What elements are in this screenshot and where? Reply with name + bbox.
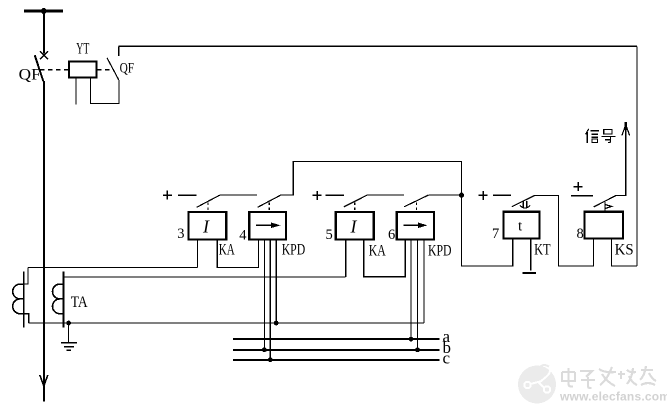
current transformer TA coil 2	[52, 271, 63, 327]
busbar	[24, 9, 63, 12]
relay box 3 (KA current relay)	[189, 212, 227, 240]
svg-text:6: 6	[388, 227, 395, 243]
label 7	[492, 226, 499, 242]
label KS	[615, 242, 634, 259]
node dot CT2-neutral	[66, 321, 71, 326]
wire CT1 top jog to wire A	[24, 268, 28, 285]
relay box 4 (KPD power direction relay)	[249, 212, 286, 240]
ground	[61, 343, 77, 351]
wire contact3 to contact4	[220, 194, 257, 196]
phase line a	[233, 338, 439, 340]
label 6	[388, 227, 395, 243]
phase line b	[233, 349, 439, 351]
wire box5 left pin	[345, 240, 347, 277]
wire contact 8 fixed	[571, 195, 593, 197]
contact QF aux blade	[107, 58, 119, 80]
watermark text www.elecfans.com	[559, 390, 667, 404]
wire box5-box6 U link	[364, 240, 405, 277]
linkage tick box4	[268, 203, 270, 212]
wire right rail	[636, 46, 638, 266]
contact KS-8 blade	[594, 195, 616, 207]
wire box4 pin to neutral line	[275, 240, 277, 323]
svg-text:KPD: KPD	[428, 243, 452, 260]
wire box6 pin to neutral line end	[423, 240, 425, 323]
contact KA-3 blade	[197, 195, 220, 207]
watermark text 电子发烧友	[562, 366, 656, 388]
svg-text:c: c	[443, 349, 451, 368]
wire contact5 to contact6	[368, 194, 405, 196]
phase line c	[233, 359, 439, 361]
node dot box4-neutral	[274, 321, 279, 326]
arrow in box 4	[256, 223, 281, 229]
node dot box6-b	[415, 347, 420, 352]
wire dash (contact 5 fixed)	[326, 194, 344, 196]
plus supply (contact 8)	[574, 182, 583, 191]
wire contact8 to signal arrow	[616, 125, 626, 195]
signal relay box 8 (KS)	[585, 212, 624, 239]
label 8	[577, 226, 584, 242]
svg-text:QF: QF	[19, 67, 41, 84]
label KPD (box4)	[282, 242, 306, 259]
svg-text:KA: KA	[369, 243, 387, 260]
wire top rail	[119, 45, 637, 47]
svg-text:TA: TA	[71, 294, 89, 311]
svg-text:5: 5	[326, 227, 333, 243]
label I in box 3	[202, 217, 210, 237]
wire dash (contact 3 fixed)	[178, 194, 197, 196]
label b	[443, 338, 452, 357]
wire neutral line	[29, 322, 424, 324]
plus supply (contact 7)	[479, 191, 488, 200]
minus terminal	[523, 272, 537, 274]
label TA	[71, 294, 89, 311]
wire box7 right pin	[530, 239, 532, 271]
wire box3 left pin	[196, 240, 198, 268]
current transformer TA coil 1	[13, 271, 24, 327]
linkage tick box6	[415, 203, 417, 212]
dashed linkage YT to QF aux contact	[97, 69, 113, 71]
svg-text:QF: QF	[120, 61, 135, 77]
svg-text:KPD: KPD	[282, 242, 306, 259]
label KPD (box6)	[428, 243, 452, 260]
dashed linkage breaker to YT	[40, 69, 69, 71]
breaker QF blade	[35, 55, 44, 81]
node junction dot A	[459, 193, 464, 198]
wire box4 pin to b line	[263, 240, 265, 350]
label a	[443, 327, 451, 346]
svg-text:4: 4	[239, 227, 247, 243]
wire A: CT1 to box3	[28, 267, 198, 269]
relay box 5 (KA current relay)	[336, 212, 374, 240]
wire box8 right pin to right rail	[612, 239, 638, 266]
linkage tick box5	[354, 203, 356, 212]
svg-text:I: I	[202, 217, 210, 237]
wire box3-box4 U link	[217, 240, 258, 268]
label 信号 (signal)	[586, 129, 616, 143]
label KA (box5)	[369, 243, 387, 260]
svg-text:KS: KS	[615, 242, 634, 259]
svg-text:8: 8	[577, 226, 584, 242]
ground lead	[68, 323, 70, 343]
wire box4 pin to c line	[269, 240, 271, 360]
feeder arrow	[40, 375, 48, 386]
node dot box4-c	[268, 357, 273, 362]
label 4	[239, 227, 247, 243]
wire junction down to KT row	[462, 195, 513, 266]
wire CT2 bottom jog	[64, 322, 69, 324]
wire B: CT2 to box5	[69, 276, 346, 278]
contact QF aux (fixed terminal)	[118, 46, 120, 56]
arrow in box 6	[403, 223, 427, 229]
linkage tick box3	[207, 203, 209, 212]
svg-text:YT: YT	[76, 41, 89, 58]
svg-text:KA: KA	[219, 242, 236, 259]
label QF (aux contact)	[120, 61, 135, 77]
wire feeder upper segment	[43, 11, 45, 54]
svg-text:I: I	[350, 217, 358, 237]
contact KA-5 blade	[344, 195, 368, 207]
wire dash (contact 7 fixed)	[493, 194, 511, 196]
wire YT right pin loop	[91, 78, 119, 104]
label QF (breaker)	[19, 67, 41, 84]
wire YT left pin	[75, 78, 77, 105]
label c	[443, 349, 451, 368]
plus supply (contact 5)	[313, 191, 322, 200]
label t in box 7	[518, 219, 523, 235]
contact KT-7 blade (delayed)	[512, 196, 535, 207]
node dot box4-b	[262, 347, 267, 352]
plus supply (contact 3)	[163, 191, 172, 200]
label 5	[326, 227, 333, 243]
trip coil YT	[69, 62, 97, 78]
wire contact6 to junction	[429, 194, 462, 196]
svg-text:3: 3	[177, 226, 184, 242]
svg-text:www.elecfans.com: www.elecfans.com	[559, 390, 667, 404]
delay symbol on blade 7	[520, 201, 530, 208]
breaker QF (X mark)	[40, 51, 48, 59]
svg-text:KT: KT	[534, 242, 551, 259]
label I in box 5	[350, 217, 358, 237]
wire box6 pin to a line	[410, 240, 412, 340]
watermark logo	[518, 365, 556, 403]
signal arrow	[622, 122, 630, 136]
svg-text:t: t	[518, 219, 523, 235]
flag on blade 8	[605, 202, 612, 211]
contact KPD-6 blade	[404, 195, 429, 207]
wire box6 pin to b line	[417, 240, 419, 350]
node dot box6-a	[409, 337, 414, 342]
wire feeder lower segment	[43, 81, 45, 401]
label KA (box3)	[219, 242, 236, 259]
label YT	[76, 41, 89, 58]
contact KPD-4 blade	[258, 195, 281, 207]
node busbar junction dot	[41, 8, 47, 14]
relay box 6 (KPD power direction relay)	[397, 212, 434, 240]
wire CT1 bottom jog to neutral line	[24, 314, 29, 323]
label KT	[534, 242, 551, 259]
time relay box 7 (KT)	[503, 212, 539, 239]
label 3	[177, 226, 184, 242]
wire contact4 up-over to junction	[281, 161, 462, 195]
wire contact7 to KS coil	[535, 196, 594, 267]
svg-text:7: 7	[492, 226, 499, 242]
wire CT2 top jog to wire B	[64, 276, 69, 278]
